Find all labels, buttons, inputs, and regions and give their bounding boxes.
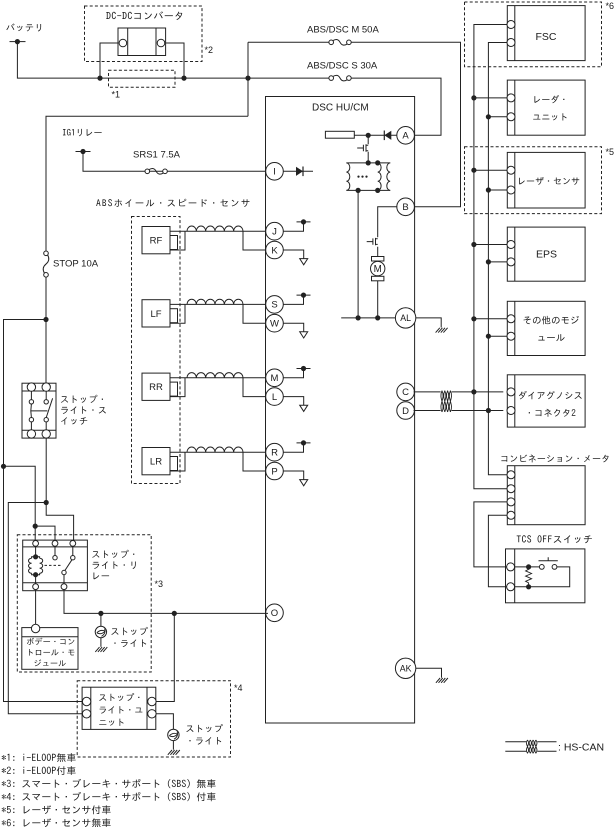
terminal S	[266, 296, 284, 314]
sensor LF box	[142, 300, 170, 327]
svg-text:SRS1 7.5A: SRS1 7.5A	[133, 150, 181, 161]
wire DC-DC right	[166, 43, 184, 78]
unit dashed box *4	[77, 681, 230, 757]
label stop light switch	[61, 395, 106, 425]
junction bus-left	[97, 76, 102, 81]
diag pin 2	[507, 407, 515, 415]
twisted pair RF	[187, 226, 243, 231]
wire bus to STOP fuse	[46, 116, 248, 251]
label DSC HU/CM	[312, 103, 369, 114]
wire LR return	[170, 452, 266, 471]
relay dashed box *3	[17, 535, 151, 672]
label stop light unit	[99, 693, 142, 726]
EPS box	[507, 227, 585, 281]
meter pin 1	[507, 471, 515, 479]
relay coil L	[29, 546, 43, 584]
label HS-CAN	[558, 742, 604, 754]
switch terminal B2	[42, 430, 50, 438]
svg-text:FSC: FSC	[536, 31, 557, 43]
junction other2	[486, 334, 491, 339]
radar unit box	[507, 80, 585, 135]
terminal L	[266, 388, 284, 406]
fuse STOP 10A	[43, 251, 49, 277]
label stop light 1	[111, 627, 147, 647]
svg-text:M: M	[271, 373, 279, 384]
other modules box	[507, 301, 585, 355]
switch poles	[31, 391, 53, 429]
stop light relay box	[23, 540, 88, 591]
internal ground W	[283, 323, 308, 338]
terminal P	[266, 462, 284, 480]
svg-text:EPS: EPS	[536, 249, 557, 261]
label combination meter	[501, 454, 608, 462]
sensor LR connector	[170, 457, 178, 471]
switch terminal T2	[42, 383, 50, 391]
label other modules	[524, 316, 579, 341]
junction AL2	[375, 315, 380, 320]
junction eps2	[486, 259, 491, 264]
wire meter pin3 to TCS	[474, 502, 507, 567]
relay link dashed	[45, 564, 62, 566]
stop light bulb 2	[168, 729, 179, 740]
resistor R1	[325, 131, 354, 138]
twisted pair LR	[187, 447, 243, 452]
note line 6	[2, 818, 111, 827]
junction CAN-H diag	[471, 389, 476, 394]
sensor RR box	[142, 373, 170, 400]
wire eps2	[488, 261, 507, 263]
note line 3	[2, 779, 216, 788]
EPS pin 1	[507, 241, 515, 249]
battery	[6, 24, 41, 45]
note line 1	[2, 753, 76, 762]
internal ground P	[283, 471, 308, 486]
junction laser1	[471, 168, 476, 173]
svg-text:: HS-CAN: : HS-CAN	[558, 742, 604, 754]
FSC dashed box *6	[465, 2, 602, 67]
wire bulb1 to ground	[100, 638, 102, 647]
junction far-left	[1, 464, 6, 469]
switch contacts	[29, 400, 48, 422]
junction bulb1	[98, 611, 103, 616]
svg-text:RR: RR	[149, 382, 163, 393]
wire B to motor	[378, 207, 397, 238]
svg-text:ABS/DSC M 50A: ABS/DSC M 50A	[307, 25, 379, 36]
junction CAN-L diag	[486, 408, 491, 413]
svg-text:A: A	[402, 131, 409, 142]
label ABS wheel speed sensors	[96, 199, 249, 207]
label fuse S	[307, 61, 378, 72]
wire switch to relay T3	[46, 438, 73, 540]
junction eps1	[471, 242, 476, 247]
svg-text:W: W	[270, 319, 279, 330]
sensor RF connector	[170, 236, 178, 250]
junction TCS bot	[526, 584, 531, 589]
svg-text:STOP 10A: STOP 10A	[53, 259, 99, 270]
label STOP 10A	[53, 259, 99, 270]
label DC-DC converter	[106, 11, 182, 20]
wire relay B2 to O	[64, 590, 268, 614]
stop light bulb 1	[95, 626, 106, 637]
relay terminal T3	[70, 541, 76, 547]
label *4	[234, 683, 243, 693]
terminal A	[397, 127, 415, 145]
radar pin 1	[507, 94, 515, 102]
TCS pin 1	[507, 563, 515, 571]
terminal R	[266, 443, 284, 461]
wire unit R1 up	[156, 613, 174, 701]
junction stop-branch	[43, 317, 48, 322]
internal ground L	[283, 397, 308, 412]
other pin 1	[507, 315, 515, 323]
label BCM	[27, 638, 74, 667]
wire laser2	[488, 189, 507, 191]
svg-text:*1: *1	[112, 90, 121, 100]
terminal D	[397, 402, 415, 420]
resistor R TCS	[526, 567, 532, 587]
label fuse SRS1	[133, 150, 181, 161]
wire laser1	[474, 169, 507, 171]
svg-text:J: J	[272, 227, 277, 238]
TCS pin 2	[507, 583, 515, 591]
note line 2	[2, 766, 76, 775]
TCS wiring	[515, 567, 570, 587]
svg-text:P: P	[271, 466, 277, 477]
mosfet Q1	[357, 135, 368, 163]
note line 5	[2, 805, 111, 814]
sensor RF box	[142, 227, 170, 254]
wire LF signal	[170, 303, 266, 305]
unit pin L1	[82, 697, 90, 705]
twisted pair LF	[187, 299, 243, 304]
junction unit-feed	[172, 611, 177, 616]
label *3	[155, 579, 164, 589]
wire to stoplight unit 2	[8, 503, 82, 714]
wire fuse M to B	[248, 42, 461, 207]
solenoid rails	[346, 163, 390, 191]
twisted pair RR	[187, 373, 243, 378]
diode D2	[384, 131, 391, 141]
label *6	[606, 1, 615, 11]
jumper dashed box *1	[109, 70, 176, 87]
solenoid coil La	[346, 163, 349, 191]
laser pin 1	[507, 166, 515, 174]
unit pin R2	[148, 710, 156, 718]
motor M brushes	[372, 257, 384, 281]
fuse ABS/DSC S 30A	[329, 75, 351, 81]
HS-CAN legend wires	[505, 742, 556, 751]
junction relay T1/T2	[33, 524, 38, 529]
svg-text:*6: *6	[606, 1, 615, 11]
body control module box	[22, 628, 78, 670]
junction bus-right	[181, 76, 186, 81]
solenoid coil Lb	[378, 163, 381, 191]
junction sol bot2	[375, 188, 380, 193]
terminal O	[266, 604, 284, 622]
switch SW TCS	[539, 557, 558, 569]
wire RF signal	[170, 230, 266, 232]
ground bulb1	[95, 647, 107, 652]
meter pin 3	[507, 498, 515, 506]
CAN-L bus	[488, 43, 507, 475]
label laser sensor	[519, 177, 579, 185]
wire to bulb1	[100, 613, 102, 626]
junction radar1	[471, 95, 476, 100]
wire eps1	[474, 244, 507, 246]
svg-text:R: R	[271, 448, 278, 459]
svg-text:*4: *4	[234, 683, 243, 693]
terminal W	[266, 314, 284, 332]
label *5	[606, 147, 615, 157]
wire LR signal	[170, 451, 266, 453]
BCM pin	[31, 624, 39, 632]
terminal C	[397, 383, 415, 401]
wire fuse S to A	[248, 78, 441, 135]
stop light switch box	[22, 383, 56, 438]
junction radar2	[486, 114, 491, 119]
switch terminal B1	[27, 430, 35, 438]
wire AK to ground	[416, 668, 442, 677]
wire STOP fuse to switch	[45, 277, 47, 383]
wire unit R2 to bulb2	[156, 714, 173, 729]
wire RF return	[170, 231, 266, 250]
junction TCS top	[526, 564, 531, 569]
wire branch to far left	[4, 320, 83, 702]
ground AL	[436, 328, 448, 333]
svg-text:*3: *3	[155, 579, 164, 589]
svg-text:C: C	[402, 387, 409, 398]
combination meter box	[507, 466, 585, 525]
label stop light relay	[92, 550, 136, 580]
terminal I	[266, 163, 284, 181]
svg-text:M: M	[374, 264, 382, 275]
junction other1	[471, 316, 476, 321]
sensor RR connector	[170, 382, 178, 396]
FSC pin 1	[507, 21, 515, 29]
other pin 2	[507, 332, 515, 340]
pull-up R	[283, 440, 311, 452]
wire AL to ground	[416, 318, 441, 328]
meter pin 2	[507, 485, 515, 493]
junction sol top1	[366, 160, 371, 165]
wire RR return	[170, 378, 266, 397]
wire riser x248	[247, 42, 249, 116]
switch terminal T1	[27, 383, 35, 391]
pull-up M	[283, 366, 311, 378]
relay terminal T1	[33, 541, 39, 547]
FSC box	[507, 6, 585, 61]
fuse SRS1 7.5A	[145, 169, 167, 175]
laser pin 2	[507, 186, 515, 194]
wire IG1 to I	[83, 152, 266, 172]
wire to relay T1	[4, 466, 36, 540]
wire bulb2 to ground	[172, 741, 174, 750]
pull-up J	[283, 219, 311, 231]
FSC pin 2	[507, 39, 515, 47]
svg-text:*2: *2	[205, 45, 214, 55]
sensor LF connector	[170, 309, 178, 323]
terminal M	[266, 369, 284, 387]
svg-text:D: D	[402, 406, 409, 417]
label fuse M	[307, 25, 379, 36]
AL rail	[341, 317, 395, 319]
junction bus-riser	[245, 76, 250, 81]
wire LF return	[170, 304, 266, 323]
wire radar1	[474, 97, 507, 99]
svg-text:I: I	[273, 167, 276, 178]
diagnosis connector 2 box	[507, 375, 585, 427]
svg-text:AL: AL	[400, 313, 411, 323]
wire motor to AL rail	[377, 281, 379, 318]
junction AL1	[356, 315, 361, 320]
relay contact	[53, 546, 75, 584]
svg-text:LF: LF	[150, 309, 161, 320]
svg-text:K: K	[271, 245, 278, 256]
junction sol bot1	[356, 188, 361, 193]
TCS OFF switch box	[506, 549, 585, 603]
svg-text:DSC HU/CM: DSC HU/CM	[312, 103, 369, 114]
wire meter pin4 to TCS	[488, 515, 506, 587]
laser sensor box	[507, 152, 585, 208]
ABS sensors dashed box	[132, 217, 181, 484]
wire RR signal	[170, 377, 266, 379]
terminal B	[397, 198, 415, 216]
wire other1	[474, 318, 507, 320]
DSC HU/CM box	[266, 97, 415, 724]
label EPS	[536, 249, 557, 261]
wire R1 to A	[354, 134, 397, 136]
unit pin R1	[148, 697, 156, 705]
label TCS OFF switch	[517, 535, 592, 543]
terminal J	[266, 222, 284, 240]
unit pin L2	[82, 710, 90, 718]
radar pin 2	[507, 113, 515, 121]
stop light unit box	[82, 687, 156, 729]
relay terminal T2	[52, 541, 58, 547]
label radar unit	[533, 95, 566, 120]
svg-text:L: L	[272, 392, 277, 403]
label FSC	[536, 31, 557, 43]
relay terminal B1	[33, 584, 39, 590]
motor M	[371, 261, 385, 275]
ground bulb2	[168, 750, 180, 755]
svg-text:S: S	[271, 300, 277, 311]
meter pin 4	[507, 511, 515, 519]
terminal K	[266, 241, 284, 259]
wire solenoid to AL rail	[357, 190, 359, 318]
svg-text:O: O	[271, 608, 278, 619]
svg-text:B: B	[402, 202, 408, 213]
label *2	[205, 45, 214, 55]
label *1	[112, 90, 121, 100]
terminal AL	[395, 308, 415, 328]
wire radar2	[488, 116, 507, 118]
IG1 relay feed	[63, 129, 102, 154]
wire other2	[488, 335, 507, 337]
diode D1 after I	[283, 167, 313, 177]
wire DC-DC left	[100, 43, 118, 78]
note line 4	[2, 792, 216, 801]
solenoid coil Lc	[387, 163, 390, 191]
junction switch-out	[44, 500, 49, 505]
wire relay B1 to BCM	[35, 590, 37, 625]
wire battery bus	[17, 42, 248, 79]
laser dashed box *5	[465, 147, 602, 214]
wire D to diag	[414, 410, 504, 412]
svg-text:ABS/DSC S 30A: ABS/DSC S 30A	[307, 61, 378, 72]
terminal AK	[395, 658, 415, 678]
label stop light 2	[186, 724, 222, 745]
junction laser2	[486, 187, 491, 192]
internal ground K	[283, 250, 308, 265]
HS-CAN legend twist	[526, 740, 537, 753]
fuse ABS/DSC M 50A	[329, 40, 351, 46]
pull-up S	[283, 293, 311, 305]
wire to relay T2	[35, 526, 55, 540]
junction sol top2	[375, 160, 380, 165]
diag pin 1	[507, 388, 515, 396]
svg-text:LR: LR	[150, 457, 162, 468]
CAN-H bus	[474, 25, 507, 489]
label diagnosis connector	[519, 391, 582, 417]
svg-text:*5: *5	[606, 147, 615, 157]
mosfet Q2	[367, 238, 378, 257]
ellipsis dots	[357, 176, 367, 178]
relay K1 DC-DC	[118, 28, 166, 56]
junction R1-A	[366, 133, 371, 138]
svg-text:AK: AK	[400, 664, 412, 674]
DC-DC converter dashed box *2	[85, 6, 203, 62]
sensor LR box	[142, 448, 170, 475]
twisted pair C/D	[441, 391, 452, 412]
relay terminal B2	[61, 584, 67, 590]
wire C to diag	[414, 391, 504, 393]
ground AK	[436, 678, 448, 683]
svg-text:RF: RF	[150, 236, 163, 247]
EPS pin 2	[507, 258, 515, 266]
